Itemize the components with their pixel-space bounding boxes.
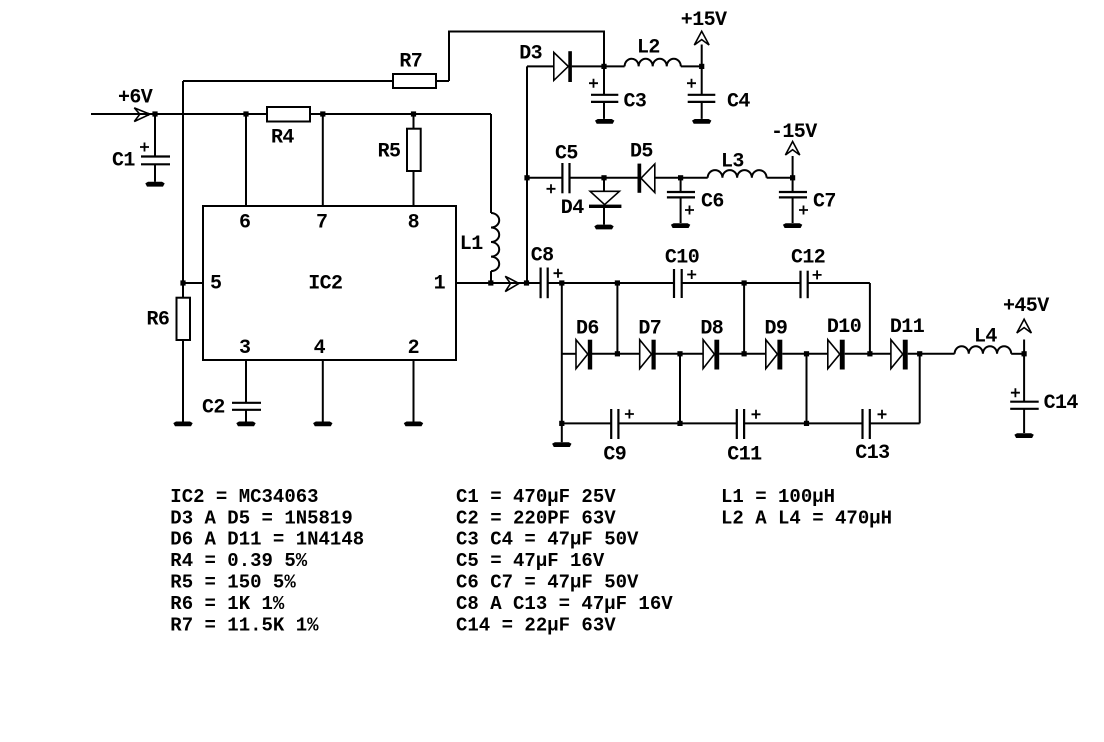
svg-text:C3: C3 — [624, 90, 647, 113]
svg-text:L3: L3 — [721, 151, 744, 174]
svg-text:C9: C9 — [603, 444, 626, 467]
svg-text:3: 3 — [239, 337, 250, 360]
svg-text:C11: C11 — [727, 444, 762, 467]
svg-text:C6: C6 — [701, 190, 724, 213]
svg-text:C14: C14 — [1044, 392, 1079, 415]
svg-text:IC2: IC2 — [308, 273, 342, 296]
svg-text:IC2 = MC34063: IC2 = MC34063 — [170, 486, 318, 508]
svg-text:D3 A D5 = 1N5819: D3 A D5 = 1N5819 — [170, 507, 352, 529]
svg-text:C5 = 47µF 16V: C5 = 47µF 16V — [456, 550, 605, 572]
svg-text:+45V: +45V — [1003, 295, 1049, 318]
svg-text:C6 C7 = 47µF 50V: C6 C7 = 47µF 50V — [456, 572, 639, 594]
svg-text:C8: C8 — [531, 245, 554, 268]
svg-text:R4: R4 — [271, 127, 294, 150]
svg-text:C10: C10 — [665, 246, 699, 269]
svg-text:+15V: +15V — [681, 9, 727, 32]
svg-text:D3: D3 — [519, 42, 542, 65]
svg-text:R6: R6 — [147, 309, 170, 332]
svg-text:+6V: +6V — [118, 87, 153, 110]
svg-text:R6 = 1K 1%: R6 = 1K 1% — [170, 593, 285, 615]
svg-text:4: 4 — [314, 337, 326, 360]
svg-text:R7 = 11.5K 1%: R7 = 11.5K 1% — [170, 614, 319, 636]
svg-text:2: 2 — [408, 337, 419, 360]
svg-text:C8 A C13 = 47µF 16V: C8 A C13 = 47µF 16V — [456, 593, 673, 615]
svg-text:L1: L1 — [460, 233, 483, 256]
svg-text:C14 = 22µF 63V: C14 = 22µF 63V — [456, 614, 616, 636]
svg-text:C1 = 470µF 25V: C1 = 470µF 25V — [456, 486, 616, 508]
svg-text:C3 C4 = 47µF 50V: C3 C4 = 47µF 50V — [456, 529, 639, 551]
svg-text:R7: R7 — [399, 51, 422, 74]
svg-text:C1: C1 — [112, 150, 135, 173]
svg-text:C5: C5 — [555, 143, 578, 166]
svg-text:7: 7 — [316, 211, 327, 234]
svg-text:D5: D5 — [630, 141, 653, 164]
svg-text:D7: D7 — [638, 318, 661, 341]
svg-text:D8: D8 — [700, 318, 723, 341]
svg-text:C7: C7 — [813, 190, 836, 213]
svg-text:D11: D11 — [890, 316, 925, 339]
svg-text:C2: C2 — [202, 397, 225, 420]
svg-text:C4: C4 — [727, 90, 750, 113]
svg-text:C12: C12 — [791, 246, 825, 269]
svg-text:R4 = 0.39 5%: R4 = 0.39 5% — [170, 550, 307, 572]
svg-text:6: 6 — [239, 212, 250, 235]
svg-text:L1 = 100µH: L1 = 100µH — [721, 486, 835, 508]
svg-text:5: 5 — [210, 273, 221, 296]
svg-text:D6: D6 — [576, 318, 599, 341]
svg-text:-15V: -15V — [771, 121, 817, 144]
svg-text:1: 1 — [434, 273, 446, 296]
svg-text:L4: L4 — [974, 326, 997, 349]
svg-text:C13: C13 — [855, 442, 889, 465]
svg-text:8: 8 — [408, 211, 419, 234]
svg-text:L2 A L4 = 470µH: L2 A L4 = 470µH — [721, 507, 892, 529]
svg-text:D4: D4 — [561, 197, 584, 220]
svg-text:D9: D9 — [765, 318, 788, 341]
svg-text:C2 = 220PF 63V: C2 = 220PF 63V — [456, 507, 616, 529]
svg-text:D10: D10 — [827, 316, 861, 339]
svg-text:D6 A D11 = 1N4148: D6 A D11 = 1N4148 — [170, 529, 364, 551]
svg-text:R5: R5 — [378, 141, 401, 164]
svg-text:R5 = 150 5%: R5 = 150 5% — [170, 572, 296, 594]
svg-text:L2: L2 — [637, 36, 660, 59]
